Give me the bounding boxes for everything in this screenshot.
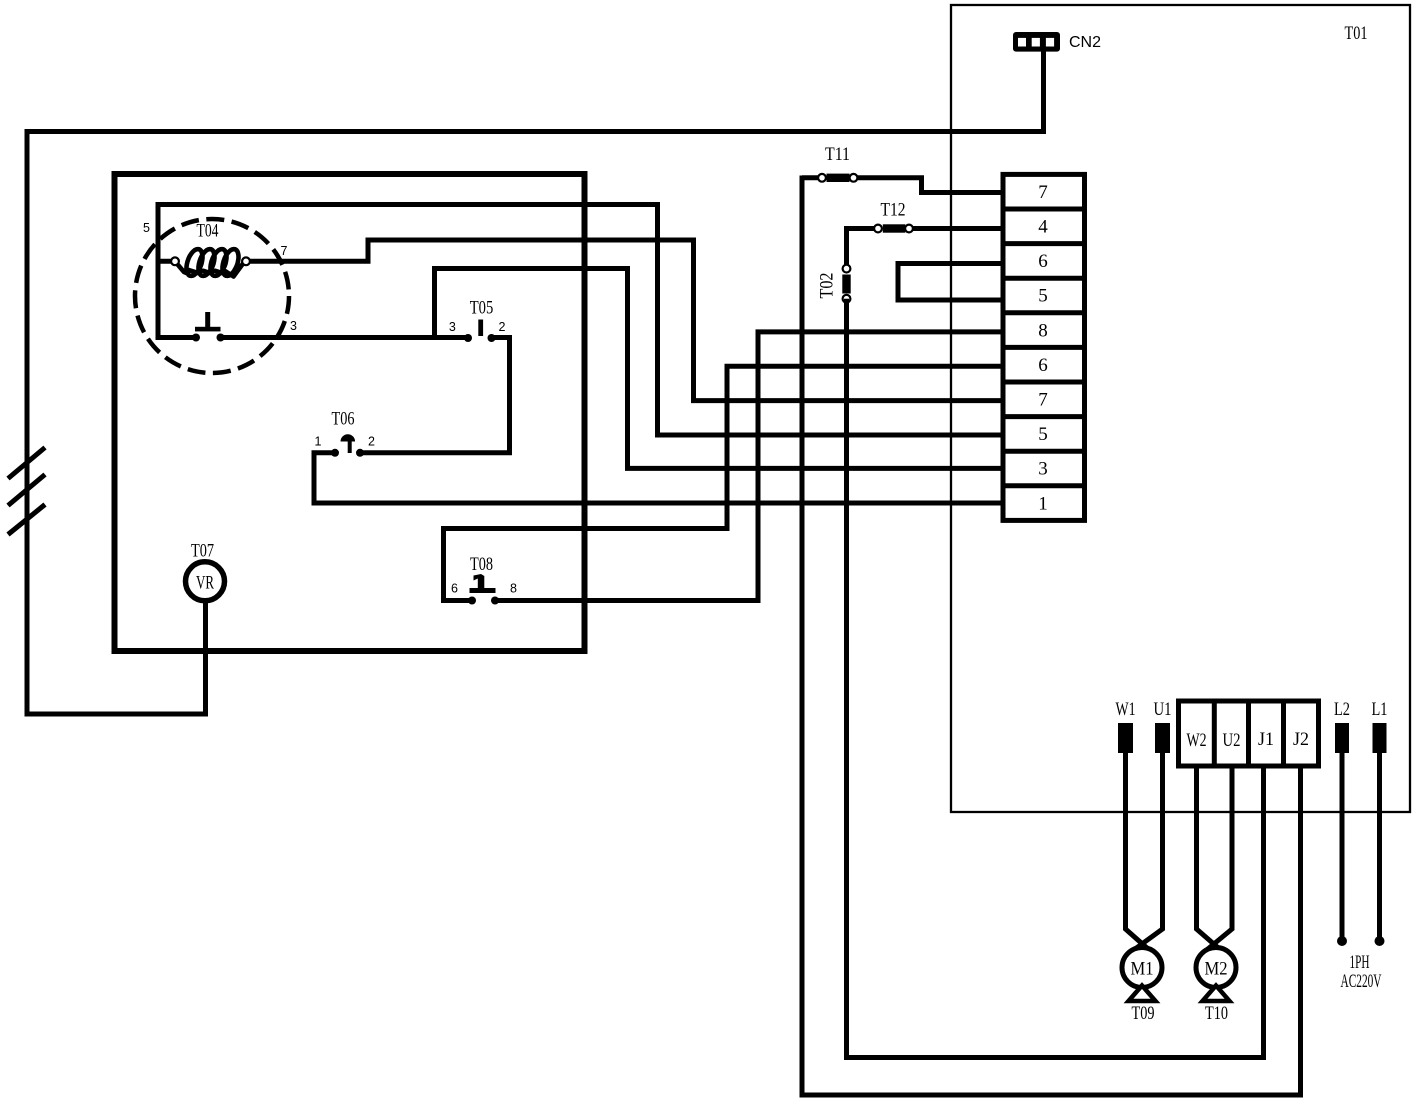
wire T04 pin7 to cell 7	[246, 240, 1005, 401]
wire CN2 stem and outer frame to VR	[27, 52, 1044, 715]
wire T04 switch left	[158, 335, 196, 340]
loop cells 6-5	[898, 264, 1005, 301]
svg-text:3: 3	[1038, 459, 1048, 480]
svg-text:1: 1	[1038, 494, 1048, 515]
node L1 end	[1375, 936, 1385, 946]
svg-text:M2: M2	[1205, 959, 1228, 980]
svg-text:7: 7	[1038, 182, 1048, 203]
svg-text:T07: T07	[191, 541, 214, 562]
svg-text:7: 7	[1038, 390, 1048, 411]
wire T02 down to J1	[847, 299, 1264, 1058]
svg-text:U2: U2	[1223, 730, 1241, 751]
svg-text:5: 5	[1038, 286, 1048, 307]
svg-text:6: 6	[1038, 251, 1048, 272]
terminal L1	[1373, 723, 1387, 753]
svg-text:J1: J1	[1258, 729, 1274, 750]
svg-text:8: 8	[510, 582, 517, 596]
svg-text:VR: VR	[196, 573, 214, 594]
svg-text:8: 8	[1038, 321, 1048, 342]
wire T04 pin3 to T05 pin3	[221, 335, 469, 340]
terminal L2	[1335, 723, 1349, 753]
wire T06 pin1 to cell 1	[314, 453, 1005, 503]
svg-text:6: 6	[1038, 355, 1048, 376]
svg-text:T01: T01	[1345, 23, 1368, 44]
svg-text:T04: T04	[197, 221, 219, 242]
svg-text:AC220V: AC220V	[1341, 971, 1382, 992]
wire W1 to M1	[1126, 753, 1152, 952]
potentiometer T07	[186, 562, 225, 601]
wire W2 to M2	[1197, 766, 1224, 952]
box control unit	[115, 174, 585, 651]
connector CN1 block	[1003, 174, 1085, 520]
svg-text:L1: L1	[1372, 699, 1388, 720]
wire T11 down to J2	[802, 176, 1301, 1096]
svg-text:6: 6	[451, 582, 458, 596]
fuse T02	[842, 265, 850, 303]
svg-text:U1: U1	[1154, 699, 1172, 720]
svg-text:T08: T08	[470, 554, 493, 575]
svg-text:2: 2	[368, 435, 375, 449]
motor M2	[1196, 948, 1236, 988]
svg-text:1: 1	[315, 435, 322, 449]
wire L1	[1377, 753, 1382, 938]
hatch mark 2	[8, 475, 45, 506]
pump symbol T09	[1129, 986, 1156, 1002]
wire T08 pin6 to cell 6	[444, 366, 1006, 600]
terminal block W2 U2 J1 J2	[1179, 701, 1319, 766]
svg-text:M1: M1	[1131, 959, 1154, 980]
hatch mark 3	[8, 505, 45, 535]
wire node3 to cell 3	[435, 269, 1006, 469]
switch T08	[468, 574, 499, 605]
fuse T12	[847, 224, 1006, 268]
svg-text:3: 3	[449, 320, 456, 334]
svg-text:1PH: 1PH	[1350, 952, 1370, 973]
terminal U1	[1155, 723, 1170, 753]
wire U2 to M2	[1206, 766, 1232, 951]
svg-text:T09: T09	[1132, 1003, 1155, 1024]
node L2 end	[1337, 936, 1347, 946]
svg-text:L2: L2	[1334, 699, 1350, 720]
svg-text:T12: T12	[881, 200, 906, 221]
svg-text:T06: T06	[332, 409, 355, 430]
svg-text:T05: T05	[470, 298, 494, 319]
inductor T04	[171, 249, 250, 276]
svg-text:T11: T11	[825, 144, 850, 165]
pump symbol T10	[1203, 986, 1230, 1002]
T04 switch contact	[192, 312, 225, 342]
wire VR stem	[203, 601, 208, 717]
svg-text:7: 7	[281, 244, 288, 258]
svg-text:T02: T02	[817, 273, 838, 299]
wire U1 to M1	[1133, 753, 1163, 951]
svg-text:W2: W2	[1187, 730, 1207, 751]
switch T06	[331, 434, 364, 457]
wire T04 pin5 to cell 5	[158, 205, 1005, 436]
svg-text:5: 5	[143, 221, 150, 235]
switch T05	[464, 320, 496, 343]
wire T08 pin8 to cell 8	[495, 332, 1005, 601]
wire T05 pin2 to T06 pin2	[360, 338, 510, 453]
terminal W1	[1118, 723, 1133, 753]
svg-text:5: 5	[1038, 424, 1048, 445]
svg-text:3: 3	[290, 319, 297, 333]
wire L2	[1340, 753, 1345, 938]
connector CN2	[1013, 32, 1060, 52]
svg-text:CN2: CN2	[1069, 34, 1101, 51]
svg-text:W1: W1	[1116, 699, 1136, 720]
dashed circle T04	[135, 219, 289, 373]
hatch mark 1	[8, 448, 45, 479]
fuse T11	[802, 174, 1005, 193]
motor M1	[1122, 948, 1162, 988]
svg-text:J2: J2	[1293, 729, 1309, 750]
wire coil left feed	[158, 259, 175, 264]
svg-text:2: 2	[499, 320, 506, 334]
svg-text:4: 4	[1038, 217, 1048, 238]
svg-text:T10: T10	[1205, 1003, 1228, 1024]
box T01	[951, 5, 1410, 812]
